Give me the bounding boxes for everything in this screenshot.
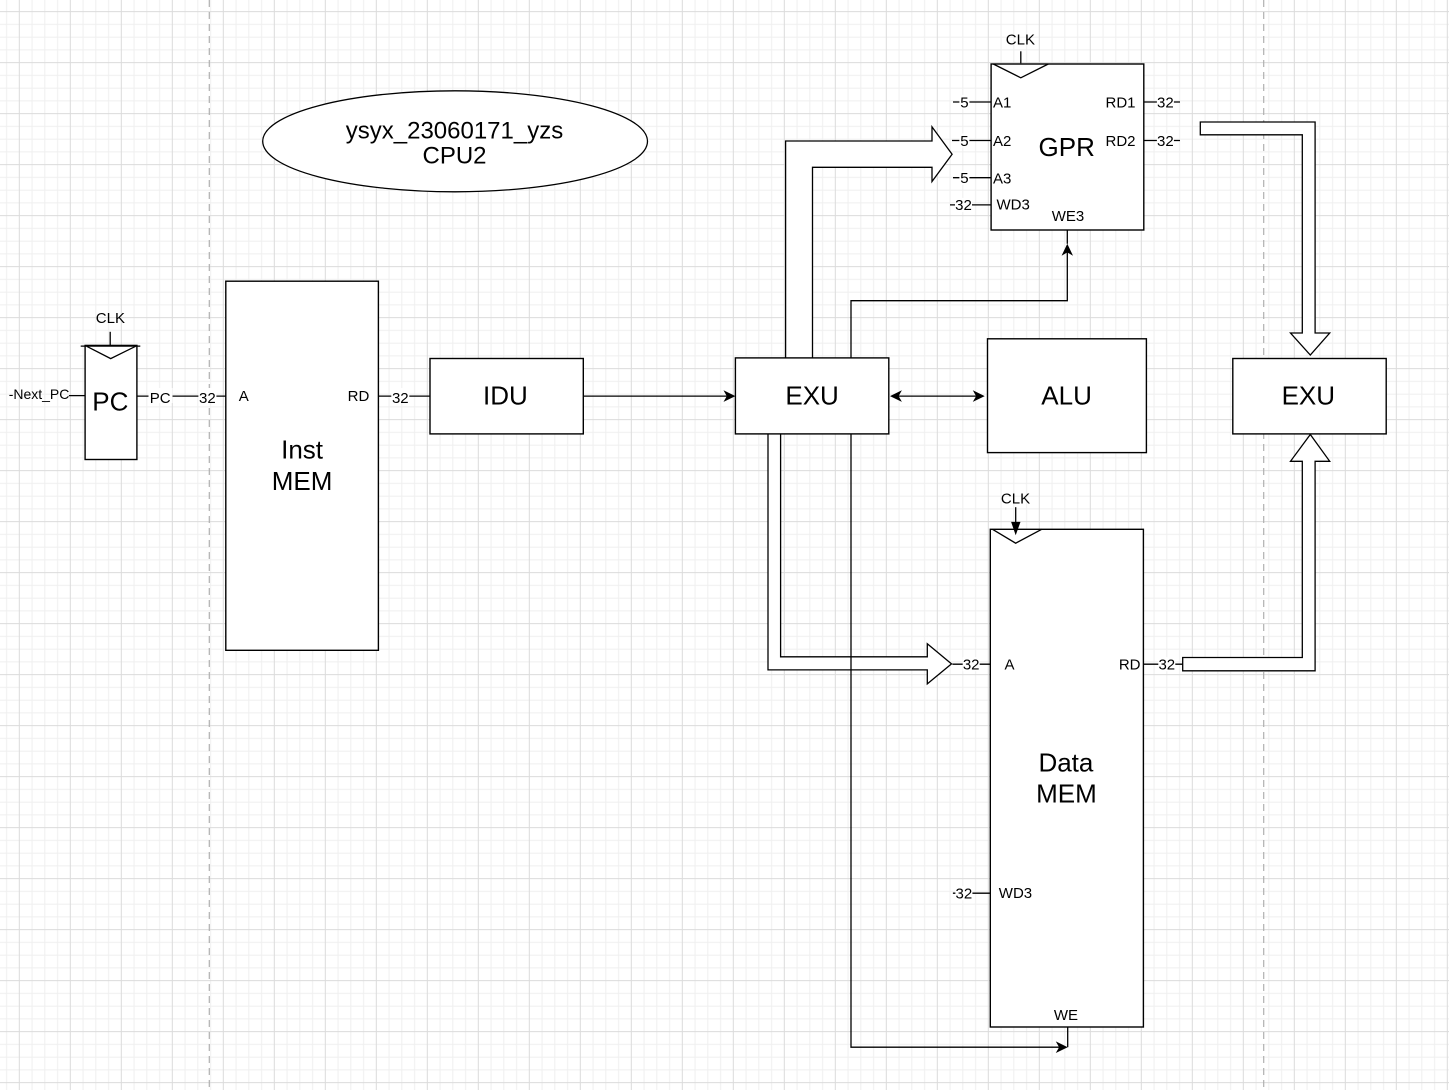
GPR pin RD2, width 32 bbox=[1105, 133, 1180, 150]
svg-text:Data: Data bbox=[1038, 748, 1093, 778]
wire EXU to Data MEM WE bbox=[851, 434, 1068, 1054]
svg-text:A: A bbox=[1005, 656, 1015, 673]
bus arrow Data MEM RD to writeback EXU (32-bit) bbox=[1183, 435, 1330, 671]
svg-text:32: 32 bbox=[199, 390, 216, 407]
writeback EXU label bbox=[1282, 381, 1335, 411]
bus arrow GPR RD2 to writeback EXU (32-bit) bbox=[1200, 122, 1329, 355]
svg-text:CLK: CLK bbox=[96, 310, 125, 327]
svg-text:MEM: MEM bbox=[272, 466, 333, 496]
bus arrow EXU to GPR A2 (5-bit) bbox=[786, 127, 953, 359]
svg-text:A: A bbox=[239, 388, 249, 405]
Data MEM pin RD, width 32 bbox=[1119, 656, 1183, 673]
block EXU bbox=[735, 358, 888, 434]
svg-text:32: 32 bbox=[392, 390, 409, 407]
bus arrow EXU to Data MEM A (32-bit) bbox=[768, 434, 952, 684]
svg-text:32: 32 bbox=[955, 197, 972, 214]
bidirectional wire EXU-ALU bbox=[890, 390, 985, 402]
svg-text:EXU: EXU bbox=[1282, 381, 1335, 411]
svg-text:ALU: ALU bbox=[1041, 381, 1092, 411]
svg-text:RD2: RD2 bbox=[1105, 133, 1135, 150]
Inst MEM pin RD bbox=[348, 388, 370, 405]
svg-text:PC: PC bbox=[150, 390, 171, 407]
wire EXU to GPR WE3 bbox=[851, 244, 1073, 359]
svg-text:32: 32 bbox=[1157, 133, 1174, 150]
ALU label bbox=[1041, 381, 1092, 411]
Data MEM pin WE bbox=[1054, 1007, 1078, 1047]
GPR pin A1, width 5 bbox=[953, 94, 1011, 111]
memory Inst MEM bbox=[226, 281, 379, 650]
svg-text:MEM: MEM bbox=[1036, 779, 1097, 809]
svg-text:RD: RD bbox=[348, 388, 370, 405]
svg-text:GPR: GPR bbox=[1039, 132, 1095, 162]
EXU label bbox=[785, 381, 838, 411]
Data MEM pin WD3, width 32 bbox=[953, 885, 1032, 902]
svg-text:CLK: CLK bbox=[1001, 490, 1030, 507]
PC label bbox=[92, 387, 128, 417]
wire IDU to EXU bbox=[583, 390, 735, 402]
svg-text:A3: A3 bbox=[993, 170, 1011, 187]
svg-text:A2: A2 bbox=[993, 133, 1011, 150]
GPR pin A3, width 5 bbox=[953, 170, 1011, 187]
svg-text:A1: A1 bbox=[993, 95, 1011, 112]
PC CLK pin bbox=[96, 310, 125, 346]
svg-text:32: 32 bbox=[1158, 657, 1175, 674]
svg-text:CPU2: CPU2 bbox=[422, 143, 486, 170]
GPR label bbox=[1039, 132, 1095, 162]
Inst MEM label bbox=[272, 435, 333, 496]
block writeback EXU bbox=[1233, 359, 1386, 434]
svg-text:IDU: IDU bbox=[483, 381, 528, 411]
svg-text:WE3: WE3 bbox=[1052, 208, 1085, 225]
GPR pin A2, width 5 bbox=[952, 133, 1011, 150]
svg-text:32: 32 bbox=[956, 885, 973, 902]
svg-text:RD1: RD1 bbox=[1105, 95, 1135, 112]
title ellipse ysyx_23060171_yzs CPU2 bbox=[263, 91, 648, 192]
svg-text:32: 32 bbox=[963, 657, 980, 674]
svg-text:WD3: WD3 bbox=[999, 885, 1032, 902]
svg-text:5: 5 bbox=[960, 170, 968, 187]
memory Data MEM bbox=[990, 529, 1143, 1027]
svg-text:Inst: Inst bbox=[281, 435, 324, 465]
Data MEM pin A, width 32 bbox=[952, 656, 1014, 673]
Data MEM CLK pin bbox=[1001, 490, 1030, 535]
register PC bbox=[81, 345, 141, 459]
svg-text:-Next_PC: -Next_PC bbox=[9, 386, 70, 402]
GPR pin WE3 bbox=[1052, 208, 1085, 244]
svg-text:WD3: WD3 bbox=[997, 197, 1030, 214]
svg-text:WE: WE bbox=[1054, 1007, 1078, 1024]
Inst MEM pin A bbox=[239, 388, 249, 405]
svg-text:EXU: EXU bbox=[785, 381, 838, 411]
svg-text:5: 5 bbox=[960, 94, 968, 111]
svg-text:CLK: CLK bbox=[1006, 32, 1035, 49]
GPR pin WD3, width 32 bbox=[950, 197, 1030, 215]
svg-text:5: 5 bbox=[960, 133, 968, 150]
svg-text:ysyx_23060171_yzs: ysyx_23060171_yzs bbox=[346, 117, 563, 144]
Next_PC input wire bbox=[9, 386, 85, 402]
IDU label bbox=[483, 381, 528, 411]
register file GPR bbox=[991, 64, 1144, 230]
svg-text:32: 32 bbox=[1157, 94, 1174, 111]
svg-text:PC: PC bbox=[92, 387, 128, 417]
block IDU bbox=[430, 359, 583, 434]
GPR pin RD1, width 32 bbox=[1105, 94, 1180, 111]
svg-text:RD: RD bbox=[1119, 656, 1141, 673]
GPR CLK pin bbox=[1006, 32, 1035, 64]
wire PC to Inst MEM, labels PC and 32 bbox=[137, 388, 226, 407]
Data MEM label bbox=[1036, 748, 1097, 809]
block ALU bbox=[988, 339, 1147, 453]
wire Inst MEM RD to IDU, label 32 bbox=[378, 388, 430, 407]
